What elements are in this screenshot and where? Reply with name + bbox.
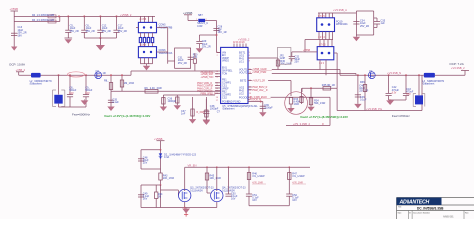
net label row L8 xyxy=(201,93,221,95)
svg-text:+V3SB: +V3SB xyxy=(183,11,192,15)
svg-text:SB?: SB? xyxy=(198,14,203,17)
capacitor C53 (x=249) xyxy=(246,194,259,206)
svg-text:Title: Title xyxy=(398,206,401,209)
capacitor C5 xyxy=(113,16,127,38)
svg-text:1: 1 xyxy=(196,19,197,21)
svg-text:Document Number: Document Number xyxy=(413,211,430,214)
svg-text:19: 19 xyxy=(249,93,251,95)
svg-text:1: 1 xyxy=(217,52,218,54)
svg-text:1nF: 1nF xyxy=(181,113,186,116)
svg-text:16V: 16V xyxy=(143,198,148,201)
resistor R12 (x=206.4) xyxy=(197,97,209,120)
regulator U7 xyxy=(317,18,335,32)
ground under R11 (pink arrow) xyxy=(189,119,196,124)
svg-text:PWM_BST2_R: PWM_BST2_R xyxy=(252,87,267,89)
wire stubs below U4 xyxy=(141,58,153,64)
wire stubs below U7 xyxy=(319,32,333,40)
ground (left regulator) xyxy=(81,100,89,106)
wire Q1 drain pullup xyxy=(184,167,186,189)
wire stubs rail to U7 xyxy=(319,13,333,18)
inductor L2 xyxy=(422,73,444,86)
wire cap loop upper xyxy=(141,149,161,169)
wire stubs left of U6 upper xyxy=(217,51,221,53)
ground (right regulator) xyxy=(386,100,394,105)
net label row L4 xyxy=(197,83,221,85)
capacitor C24 560uF xyxy=(83,75,93,99)
wire stubs above U6 xyxy=(234,44,246,48)
wire LDO top rail xyxy=(318,12,356,14)
svg-text:CS2: CS2 xyxy=(222,96,227,99)
svg-text:R36: R36 xyxy=(360,81,365,84)
svg-text:1M_1%R: 1M_1%R xyxy=(124,82,134,85)
svg-text:17: 17 xyxy=(216,100,218,102)
svg-text:16: 16 xyxy=(216,97,218,99)
svg-text:VR_EN: VR_EN xyxy=(188,164,197,168)
resistor R20 10K xyxy=(159,173,174,185)
wire cap bottoms link right xyxy=(389,99,406,101)
svg-text:Vout1 +2.0V*{1+(1.4K/70K)}=1.0: Vout1 +2.0V*{1+(1.4K/70K)}=1.00V xyxy=(104,114,150,118)
svg-text:Q2: Q2 xyxy=(96,70,100,73)
wire loop (decoupling frame) xyxy=(168,48,191,68)
wire row R1 to rail xyxy=(272,69,340,71)
svg-text:25V: 25V xyxy=(143,162,148,165)
svg-text:LG1: LG1 xyxy=(239,60,244,63)
svg-text:PWM_UG2__R: PWM_UG2__R xyxy=(252,90,268,92)
power flag +V3SB xyxy=(183,11,192,21)
capacitor C40 (x=111 lower) xyxy=(108,91,119,106)
pin numbers above U6 xyxy=(233,38,250,45)
net label row L3 xyxy=(201,77,221,79)
wire rail +V5SB_2 xyxy=(59,15,155,17)
capacitor C32 xyxy=(260,104,273,110)
svg-text:0.1uF: 0.1uF xyxy=(360,98,367,101)
transistor Q2 2N7002 xyxy=(211,167,246,201)
svg-text:59K_1%R: 59K_1%R xyxy=(314,102,325,105)
pin numbers left of U6 xyxy=(216,52,218,102)
svg-text:+V5SB_2: +V5SB_2 xyxy=(238,38,250,42)
capacitor C41 (x=357.9) xyxy=(355,75,369,104)
resistor R8 (vertical, x=111) xyxy=(104,75,113,91)
svg-text:B: B xyxy=(409,212,411,214)
label U4 xyxy=(159,49,173,55)
svg-text:16V: 16V xyxy=(18,34,23,37)
jumper box SW2 xyxy=(277,48,291,65)
svg-text:AD\\ANTECH: AD\\ANTECH xyxy=(399,200,430,206)
ground under C41 xyxy=(354,104,361,109)
divider highlight ellipse xyxy=(285,92,308,115)
svg-text:0.1uF: 0.1uF xyxy=(112,101,119,104)
ground (LDO loop) xyxy=(353,35,360,41)
label U3 PI3B-1/2 xyxy=(159,24,173,30)
wire cap bottoms link xyxy=(59,100,87,108)
junction dots VR_EN rail xyxy=(206,166,290,168)
svg-text:0.0R: 0.0R xyxy=(197,25,202,28)
net label VR_EN rail xyxy=(185,164,310,168)
capacitor C54 (x=289.3) xyxy=(286,194,299,206)
capacitor C50 (loop) xyxy=(138,156,149,164)
capacitor C2 xyxy=(65,16,79,38)
wire U6 right bottom to C32 xyxy=(248,101,263,113)
wire row R6 to enable xyxy=(271,97,330,125)
svg-text:25V_2R: 25V_2R xyxy=(118,30,127,33)
net label row R5 xyxy=(248,90,268,92)
svg-text:1%R: 1%R xyxy=(294,103,300,106)
svg-text:/Datasheet: /Datasheet xyxy=(222,107,234,110)
svg-text:16V: 16V xyxy=(292,199,297,202)
wire row R2 to rail xyxy=(272,73,356,75)
ground under C40 xyxy=(107,107,114,112)
capacitor C21 10uF xyxy=(196,40,211,48)
wire stubs below U8 xyxy=(320,53,337,88)
resistor R2 0.005Ohm xyxy=(14,16,60,23)
capacitor C33 (LDO in) xyxy=(289,52,303,64)
wire feedback row xyxy=(302,87,337,92)
svg-text:560uF: 560uF xyxy=(69,89,77,92)
svg-text:R4_2 0.005Ohm/2R: R4_2 0.005Ohm/2R xyxy=(32,19,54,22)
wire rail to feedback xyxy=(131,71,215,75)
svg-text:25V_2R: 25V_2R xyxy=(360,25,369,28)
highlight ellipse on rail xyxy=(68,72,85,77)
net label row R6 xyxy=(248,96,271,99)
resistor R8b (vertical, x=122) xyxy=(120,75,134,91)
wire stubs rail to U3 xyxy=(141,16,153,22)
svg-text:DC_IN/5SB/3.3SB: DC_IN/5SB/3.3SB xyxy=(417,207,444,211)
junction dots right rail xyxy=(357,74,420,76)
wire link bus xyxy=(305,40,333,52)
svg-text:16V: 16V xyxy=(231,198,236,201)
svg-text:1uF: 1uF xyxy=(381,22,386,25)
resistor R11 (x=192.5) xyxy=(181,97,194,119)
svg-text:PGOOD: PGOOD xyxy=(239,96,249,99)
svg-text:R9_ 2.4K_1%R: R9_ 2.4K_1%R xyxy=(145,87,162,90)
transistor Q3 (sense) xyxy=(95,70,106,79)
wire gate Q1 xyxy=(161,190,179,196)
capacitor C46 xyxy=(353,20,369,28)
size and document number row xyxy=(398,211,469,218)
svg-text:PWM_CSP1_R: PWM_CSP1_R xyxy=(197,88,213,90)
svg-text:Size: Size xyxy=(398,212,403,214)
svg-text:8: 8 xyxy=(249,61,250,63)
ground under R10 xyxy=(160,107,167,112)
junction dots on rail xyxy=(58,74,124,76)
net label row R7 xyxy=(248,100,261,102)
wire ground rail bottom xyxy=(141,202,217,208)
svg-text:WPM3401: WPM3401 xyxy=(336,23,348,26)
resistor R24 (x=289.3) xyxy=(288,167,306,194)
svg-text:6: 6 xyxy=(249,55,250,57)
net label row R1 xyxy=(248,69,272,71)
svg-text:1%_1/10W: 1%_1/10W xyxy=(252,175,265,178)
svg-text:+V5SB_TON: +V5SB_TON xyxy=(201,77,214,79)
wire feedback down-right xyxy=(337,75,422,110)
svg-text:6.3V: 6.3V xyxy=(69,93,74,95)
wire bottom link xyxy=(84,37,116,45)
wire input vertical xyxy=(13,11,15,45)
svg-text:Rev: Rev xyxy=(465,212,469,214)
resistor R5 0R xyxy=(196,14,208,28)
wire right branch xyxy=(157,28,168,64)
resistor pack RN1 xyxy=(139,38,153,43)
title text xyxy=(398,206,444,211)
svg-text:1000pF: 1000pF xyxy=(168,100,177,103)
ground under R16 xyxy=(307,107,314,112)
svg-text:+V5SB: +V5SB xyxy=(10,7,19,11)
ground under C32 xyxy=(259,112,266,117)
capacitor C30 (in loop) xyxy=(178,57,194,65)
svg-text:10K_1%R: 10K_1%R xyxy=(210,177,221,180)
ground under C36 xyxy=(174,105,181,110)
title block frame xyxy=(397,198,474,220)
svg-text:16V_1R: 16V_1R xyxy=(218,31,227,34)
net label row L6 xyxy=(197,88,221,90)
svg-text:LG2: LG2 xyxy=(239,92,244,95)
svg-text:+V5B_2: +V5B_2 xyxy=(16,68,26,72)
inductor L1 xyxy=(30,73,52,86)
net label row L7 xyxy=(197,91,221,93)
svg-text:Fsw=600KHz: Fsw=600KHz xyxy=(72,113,90,117)
net label row L5 xyxy=(197,85,221,87)
wire cap loop lower xyxy=(141,184,161,207)
junction dots on rail xyxy=(58,15,118,17)
power flag +V5SB (bottom) xyxy=(154,137,165,150)
resistor R14 (in ellipse) xyxy=(289,98,300,109)
ground (filter bank) xyxy=(96,45,105,50)
junction cross bottom xyxy=(184,212,188,216)
resistor R22 (x=207) xyxy=(205,167,221,193)
svg-text:25V: 25V xyxy=(294,61,299,64)
resistor R21 1M (loop lower) xyxy=(155,185,163,208)
svg-text:AIMB-581: AIMB-581 xyxy=(443,215,454,218)
wire loop output caps xyxy=(356,11,373,35)
wire to IC VIN xyxy=(205,21,221,53)
svg-text:/Datasheet: /Datasheet xyxy=(422,83,434,86)
svg-text:R35 0R_1R: R35 0R_1R xyxy=(322,84,335,87)
net label row L1 xyxy=(200,71,221,73)
polarized capacitor C45 (bulk right) xyxy=(413,75,425,106)
wire stubs to U4 xyxy=(141,43,153,47)
svg-text:6.3V: 6.3V xyxy=(392,92,397,94)
wire row R3 to divider xyxy=(268,81,291,97)
svg-text:+PS_3.3SB_2: +PS_3.3SB_2 xyxy=(293,122,310,126)
ground under C2 xyxy=(65,38,73,44)
svg-text:0.3A: 0.3A xyxy=(164,156,169,159)
capacitor C23 560uF xyxy=(67,75,77,99)
Advantech logo banner xyxy=(397,198,442,206)
resistor R13 30K (top right of U6) xyxy=(248,58,292,70)
transistor Q4 (sense right) xyxy=(368,70,375,79)
net label +PS_3.3SB_2 xyxy=(293,122,324,126)
svg-text:+V3.3SB_PG: +V3.3SB_PG xyxy=(366,107,382,111)
svg-text:+V5SB_SKP: +V5SB_SKP xyxy=(201,74,214,76)
svg-text:16V: 16V xyxy=(252,199,257,202)
svg-text:GND PGND: GND PGND xyxy=(227,100,241,103)
capacitor C47 xyxy=(374,18,386,28)
wire main rail left regulator xyxy=(19,74,131,76)
svg-text:6.3V: 6.3V xyxy=(406,94,411,96)
resistor R7 2.4K (horizontal) xyxy=(111,87,221,93)
wire main rail right regulator xyxy=(340,70,424,76)
svg-text:+V3.3SB_2: +V3.3SB_2 xyxy=(451,66,465,70)
label U7 xyxy=(336,21,348,27)
resistor R1 0.005Ohm xyxy=(14,14,59,18)
ground (bottom circuit) xyxy=(182,208,190,214)
svg-text:1R: 1R xyxy=(103,72,106,75)
svg-text:Fsw=470KHz: Fsw=470KHz xyxy=(392,114,410,118)
ground in ellipse xyxy=(287,108,294,112)
svg-text:+V5SB_2: +V5SB_2 xyxy=(120,13,132,17)
svg-text:Q4: Q4 xyxy=(369,70,373,73)
wire bottom loop right xyxy=(249,205,289,207)
svg-text:Vout2 +2.5V*{1+(8.45K/59K)}=3.: Vout2 +2.5V*{1+(8.45K/59K)}=3.23V xyxy=(300,115,348,119)
mux U4 xyxy=(138,47,156,58)
svg-text:1000pF: 1000pF xyxy=(264,107,273,110)
ground under C21 xyxy=(196,48,203,53)
op-amp U6 RT8206 (main PWM controller) xyxy=(221,47,249,103)
svg-text:R4_1 0.005Ohm/2R: R4_1 0.005Ohm/2R xyxy=(32,14,54,17)
svg-text:25V_2R: 25V_2R xyxy=(202,46,211,49)
svg-text:1M: 1M xyxy=(158,196,161,199)
ground under C31 xyxy=(203,120,210,125)
svg-text:BST2: BST2 xyxy=(240,79,247,82)
resistor R10 (x=163.4) xyxy=(162,95,165,107)
svg-text:1x3P: 1x3P xyxy=(280,57,286,60)
polarized capacitor C22 (bulk) xyxy=(53,75,65,107)
net label row R2 xyxy=(248,72,267,74)
svg-text:+V3.3SB_A: +V3.3SB_A xyxy=(333,8,347,12)
wire compensation row xyxy=(163,94,215,96)
svg-text:1 2 3 4: 1 2 3 4 xyxy=(318,37,325,39)
net label row L2 xyxy=(201,74,221,76)
svg-text:2: 2 xyxy=(217,55,218,57)
ground under R12 (pink arrow) xyxy=(203,120,210,125)
svg-text:PGOOD_R: PGOOD_R xyxy=(250,100,261,102)
svg-text:OCP: 10.8A: OCP: 10.8A xyxy=(9,62,25,66)
capacitor C20 1uF xyxy=(213,26,226,34)
ground (input) xyxy=(11,45,17,51)
svg-text:VOUT2: VOUT2 xyxy=(239,71,248,74)
net label row R4 xyxy=(248,87,268,89)
wire cap input link xyxy=(302,50,317,52)
net label row R3 xyxy=(248,81,265,83)
resistor R23 (x=249) xyxy=(247,167,266,194)
power flag +V5B_2 xyxy=(16,68,26,75)
transistor Q1 2N7002 xyxy=(179,187,215,202)
ground under U4 xyxy=(143,64,150,71)
capacitor C42 470uF xyxy=(386,75,400,100)
capacitor C3 xyxy=(81,16,95,38)
svg-text:C?: C? xyxy=(217,110,221,113)
wire cap tap xyxy=(199,34,217,41)
svg-text:25V_2R: 25V_2R xyxy=(102,30,111,33)
svg-text:25V_2R: 25V_2R xyxy=(86,30,95,33)
wire stubs to U8 xyxy=(320,40,332,47)
capacitor C43 470uF xyxy=(403,75,414,100)
svg-text:OCP: 7.2A: OCP: 7.2A xyxy=(449,62,463,66)
label U6 part number xyxy=(222,105,258,111)
transistor U8 (pass FET) xyxy=(317,47,334,60)
resistor R17 1M (x=365) xyxy=(360,75,367,110)
svg-text:+V5SB: +V5SB xyxy=(303,50,310,52)
wire stubs below U3 xyxy=(141,33,153,38)
capacitor C4 xyxy=(97,16,111,38)
svg-text:R_1%R: R_1%R xyxy=(197,112,205,114)
svg-text:6.3V: 6.3V xyxy=(85,93,90,95)
svg-text:TON: TON xyxy=(222,72,227,75)
wire rail to output flag xyxy=(435,71,469,76)
svg-text:+V5SB_PH2R: +V5SB_PH2R xyxy=(252,72,266,74)
svg-text:470uF: 470uF xyxy=(392,89,400,92)
svg-text:+VOUT1_2R: +VOUT1_2R xyxy=(252,81,265,83)
capacitor C1 xyxy=(11,26,27,37)
svg-text:R8_: R8_ xyxy=(104,80,109,83)
svg-text:25V_2R: 25V_2R xyxy=(70,30,79,33)
resistor R16 59K xyxy=(309,88,325,106)
svg-text:1%_1/10W: 1%_1/10W xyxy=(292,175,305,178)
diode D2 xyxy=(159,150,197,173)
capacitor C31 (left of U6 bottom) xyxy=(203,99,220,120)
capacitor C52 (x=228.5) xyxy=(225,167,237,200)
pin numbers right of U6 xyxy=(249,52,251,101)
resistor R10 47K xyxy=(193,53,198,71)
mux U3 xyxy=(136,22,157,32)
svg-text:470uF: 470uF xyxy=(406,90,414,93)
svg-text:10K_1%R: 10K_1%R xyxy=(163,177,174,180)
resistor R15 0R (feedback) xyxy=(322,84,335,90)
svg-text:5: 5 xyxy=(249,52,250,54)
capacitor C51 (loop lower) xyxy=(138,192,150,200)
capacitor C36 (x=177.3) xyxy=(168,95,180,105)
svg-text:25V_2R: 25V_2R xyxy=(178,62,187,65)
svg-text:0.115A/60V: 0.115A/60V xyxy=(190,189,203,192)
resistor R14b (in ellipse right) xyxy=(300,88,303,104)
svg-text:32 31 30 29: 32 31 30 29 xyxy=(233,42,245,44)
svg-text:560uF: 560uF xyxy=(85,89,93,92)
svg-text:/Datasheet: /Datasheet xyxy=(30,83,42,86)
wire to resistor xyxy=(188,20,198,22)
power flag +V5SB (input) xyxy=(10,7,19,11)
svg-text:VREG: VREG xyxy=(222,60,229,63)
